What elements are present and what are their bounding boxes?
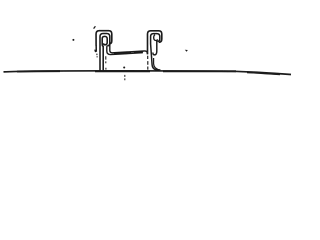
dot speck above left of seams [72, 39, 74, 41]
right curl hanging tail with hook [153, 41, 157, 55]
wedge speck right of seams [185, 50, 188, 52]
right curl outer turn [148, 31, 162, 55]
left curl second turn (V1 wall line rises into it) [100, 34, 110, 71]
left curl innermost turn around white hole (V2 wall line rises into it) [102, 36, 107, 70]
channel bottom dash overlays (merged double-line look) [114, 52, 143, 54]
left curl outer turn [96, 31, 112, 46]
left channel wall outer line into sloped channel bottom lower line [107, 46, 143, 55]
dotted centerline tick below baseline [124, 75, 126, 80]
left curl tail (outer sheet end) with hook [95, 45, 96, 52]
right seam dashed descender from channel corner to baseline [147, 56, 149, 70]
left seam dashed outer descender below channel corner [105, 56, 107, 69]
right curl innermost arc around white hole [154, 35, 158, 41]
left channel wall inner line into sloped channel bottom upper line, corner down at right [110, 45, 148, 55]
baseline (roof deck line, sagging at both ends) [4, 71, 292, 75]
tick speck left of left curl top [94, 26, 96, 28]
right curl second turn, descending and curving right into baseline [151, 34, 160, 71]
scanned sheet-metal roofing seam cross-section drawing [0, 0, 300, 112]
blob above baseline at centerline [123, 66, 125, 68]
left curl tail dash specks below [96, 54, 98, 58]
right curl wall second line curving right [154, 58, 161, 70]
baseline heavy dash overlays [17, 71, 280, 74]
